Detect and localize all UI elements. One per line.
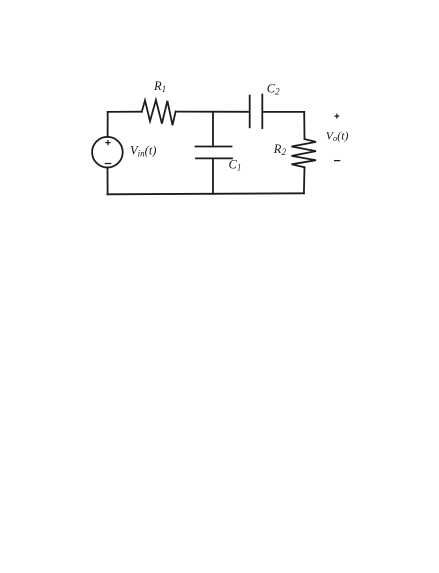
wire left rail bottom — [107, 168, 109, 195]
wire left rail top — [107, 112, 109, 137]
wire bottom rail — [108, 193, 304, 194]
wire R1 to C2 — [176, 111, 250, 113]
wire C2 to corner — [262, 111, 304, 113]
wire top-left — [108, 111, 142, 113]
svg-text:Vo(t): Vo(t) — [326, 128, 349, 143]
wire right rail top — [303, 112, 305, 139]
resistor R2 — [292, 139, 317, 167]
resistor R1 — [142, 100, 176, 125]
output plus sign — [334, 114, 339, 119]
voltage source Vin — [92, 137, 123, 168]
capacitor C2 — [250, 95, 263, 129]
capacitor C1 — [196, 147, 233, 159]
wire node to C1 — [212, 112, 214, 147]
wire C1 to bottom — [212, 158, 214, 194]
source minus sign — [105, 163, 112, 165]
output minus sign — [334, 160, 340, 162]
source plus sign — [105, 140, 110, 145]
wire right rail bottom — [303, 167, 306, 193]
